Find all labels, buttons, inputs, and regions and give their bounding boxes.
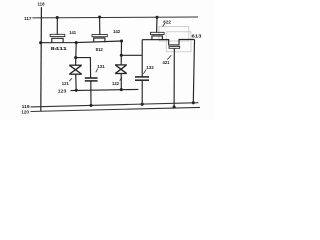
junction: transistor 421 drain on line 119 xyxy=(192,101,195,104)
ghost box B xyxy=(166,32,191,52)
junction: gate 613 on line 117 xyxy=(155,16,158,19)
leader 122 xyxy=(120,78,122,81)
leader 131 xyxy=(96,69,98,73)
wire: node 142 vertical xyxy=(120,41,122,90)
svg-text:122: 122 xyxy=(112,81,119,86)
wire: T3 source / capacitor 132 vertical xyxy=(141,40,143,105)
svg-text:421: 421 xyxy=(163,60,170,65)
junction: capacitor 132 on line 119 xyxy=(141,103,144,106)
svg-text:613: 613 xyxy=(192,33,202,39)
svg-text:812: 812 xyxy=(96,47,104,52)
wire: dummy channel xyxy=(142,40,194,45)
junction: gate 812 on line 117 xyxy=(98,15,101,18)
svg-text:123: 123 xyxy=(58,89,67,94)
svg-text:8411: 8411 xyxy=(51,46,68,51)
svg-text:142: 142 xyxy=(113,29,121,34)
wire: capacitor 131 to line 119 xyxy=(90,81,92,106)
memory element 122 (hourglass) xyxy=(115,65,127,74)
leader 121 xyxy=(69,78,72,81)
ghost box A xyxy=(159,27,189,41)
svg-text:132: 132 xyxy=(146,65,154,70)
wire: plate line 120 xyxy=(31,107,201,111)
transistor 812 xyxy=(92,17,107,42)
wire: T4 drain down xyxy=(193,40,194,103)
transistor 8411 xyxy=(50,18,65,43)
wire: branch to capacitor 132 xyxy=(121,54,142,56)
junction: gate 421 on line 120 xyxy=(173,105,176,108)
node 141 xyxy=(75,41,78,44)
junction: element 122 on line 123 xyxy=(120,88,123,91)
wire: node 141 vertical xyxy=(75,43,78,91)
junction: capacitor 131 on line 119 xyxy=(89,104,92,107)
svg-text:119: 119 xyxy=(22,104,30,109)
svg-text:118: 118 xyxy=(38,2,45,7)
wire: cell channel line xyxy=(41,41,122,43)
junction dot branch 1 xyxy=(74,56,77,59)
wire: common line 123 xyxy=(71,89,139,90)
svg-text:120: 120 xyxy=(21,110,29,115)
wire: bit line 118 vertical xyxy=(40,7,43,111)
wire: word line 117 xyxy=(32,16,198,19)
wire: plate line 119 xyxy=(31,103,199,107)
leader 132 xyxy=(143,69,146,73)
junction: transistor 8411 on bit line 118 xyxy=(39,41,42,44)
svg-text:141: 141 xyxy=(69,30,76,35)
transistor 421 (mirrored) xyxy=(169,46,180,107)
memory element 121 (hourglass) xyxy=(69,65,82,74)
wire: branch to capacitor 131 xyxy=(76,58,91,78)
leader 622 xyxy=(163,24,165,27)
node 142 xyxy=(120,39,123,42)
svg-text:131: 131 xyxy=(97,64,105,69)
junction dot branch 2 xyxy=(120,54,123,57)
junction: element 121 on line 123 xyxy=(75,89,78,92)
svg-text:121: 121 xyxy=(62,81,69,86)
capacitor 131 xyxy=(85,78,98,81)
transistor 613 xyxy=(150,17,164,39)
junction: gate 8411 on line 117 xyxy=(56,16,59,19)
capacitor 132 xyxy=(135,77,149,80)
svg-text:117: 117 xyxy=(24,16,32,21)
leader 421 xyxy=(167,55,171,59)
